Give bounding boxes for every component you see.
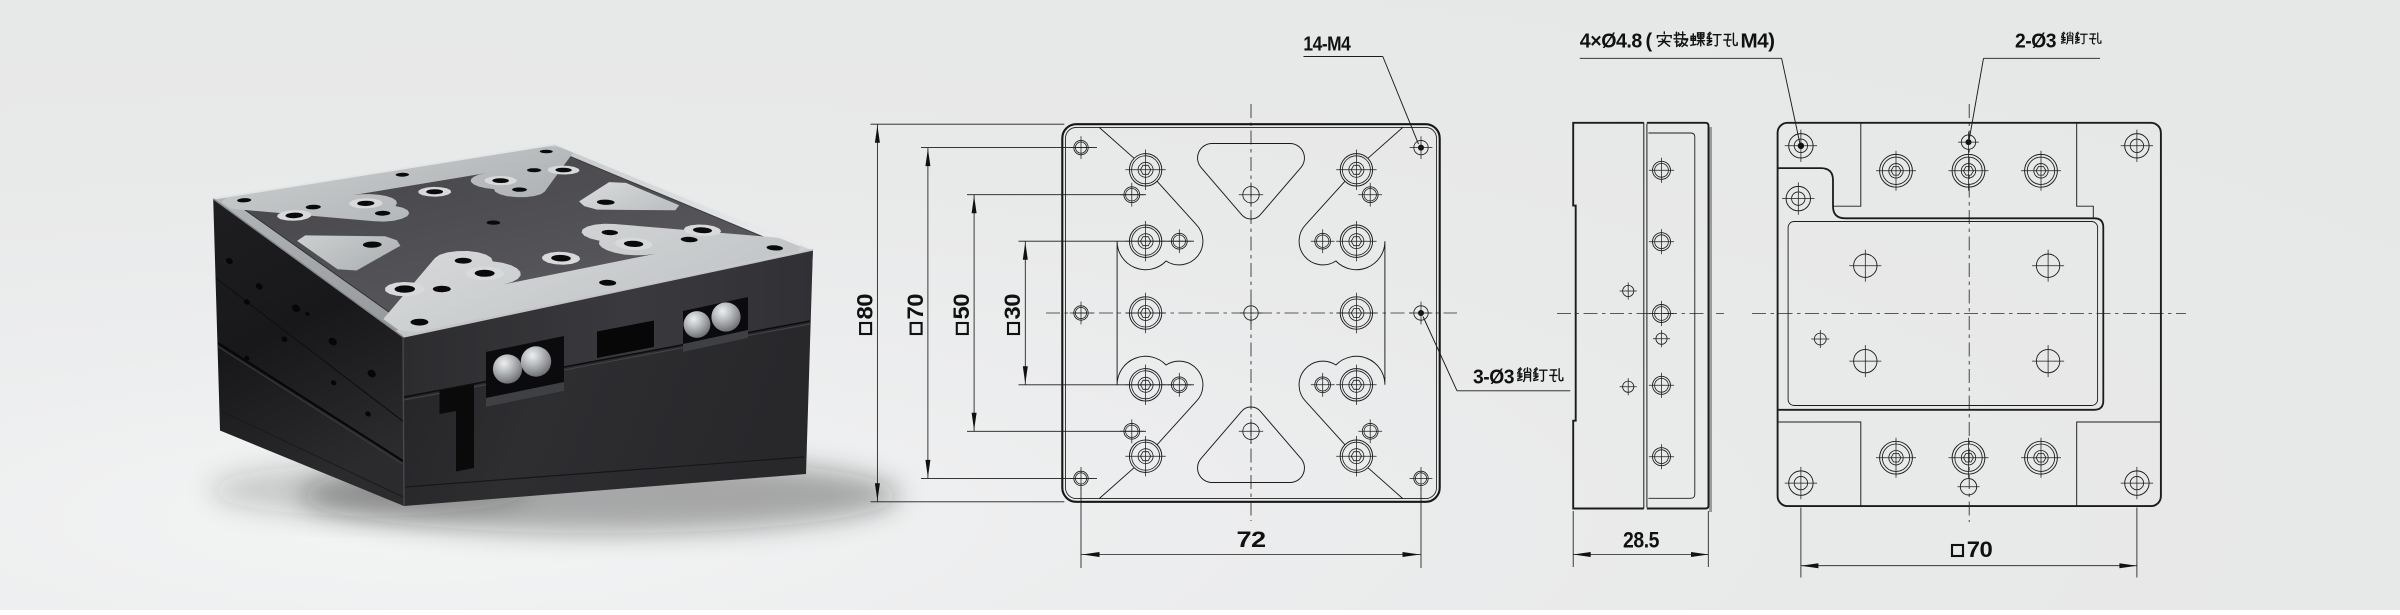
corner hole bottom-left: [1074, 471, 1088, 485]
triangular pocket bottom: [1198, 407, 1305, 482]
svg-text:70: 70: [1967, 537, 1993, 562]
gap line: [1646, 124, 1648, 508]
centre notch: [597, 321, 654, 359]
right cast shadow: [1709, 127, 1712, 512]
svg-text:14-M4: 14-M4: [1303, 34, 1351, 56]
dim 80: [871, 123, 1065, 125]
dim 50: [967, 194, 1146, 196]
counterbore hole (band): [1880, 154, 1913, 187]
M4 tapped hole (50 square): [1124, 423, 1140, 439]
counterbore screw hole M4: [1340, 154, 1372, 186]
dim 30: [1019, 240, 1195, 242]
counterbore screw hole M4: [1129, 225, 1161, 257]
body outline: [1778, 123, 2161, 506]
svg-text:(: (: [1646, 30, 1653, 52]
bearing balls left: [493, 354, 522, 383]
mounting hole 4.8: [1789, 471, 1813, 495]
band separator bottom-left: [1778, 422, 1861, 506]
centerline vertical: [1250, 104, 1252, 521]
centre hole: [1244, 306, 1258, 320]
dimension 28.5: [1572, 511, 1574, 567]
top edge highlights: [213, 144, 555, 199]
counterbore screw hole M4: [1340, 369, 1372, 401]
through hole in pocket: [2036, 254, 2059, 277]
corner hole top-right (M4, leader target): [1414, 140, 1428, 154]
through hole in pocket: [2036, 349, 2059, 372]
mounting hole 4.8: [2125, 471, 2149, 495]
metal rim left-back edge: [213, 144, 562, 202]
hole in top triangular pocket: [1243, 187, 1259, 203]
screw hole (side): [1653, 448, 1671, 466]
mounting hole 4.8: [1789, 134, 1813, 158]
cast shadow: [300, 457, 900, 533]
svg-text:72: 72: [1237, 527, 1266, 552]
milled pockets on top: [221, 147, 573, 222]
front corner edge highlight: [403, 337, 404, 506]
pin hole 2-O3 top: [1961, 135, 1975, 149]
svg-text:50: 50: [949, 294, 974, 320]
screw hole (side): [1653, 233, 1671, 251]
milled pocket outline left: [1099, 127, 1203, 498]
M4 tapped hole (50 square): [1124, 187, 1140, 203]
bearing balls right: [684, 311, 711, 338]
bearing slot right: [683, 297, 748, 352]
bottom view of stage (70 square pattern): [1752, 104, 2186, 578]
hole in bottom triangular pocket: [1243, 423, 1259, 439]
centerline: [1557, 313, 1724, 315]
dim 70: [921, 147, 1097, 149]
M4 tapped hole (30 square): [1171, 233, 1187, 249]
leader 3-O3 pin holes: [1423, 317, 1457, 391]
band separator top-left: [1833, 123, 1861, 206]
M4 tapped hole (30 square): [1315, 233, 1331, 249]
through hole in pocket: [1854, 349, 1877, 372]
base L-notch: [440, 385, 475, 472]
counterbore hole (band): [1880, 441, 1913, 474]
mid-side hole left: [1074, 306, 1088, 320]
right face upper band: [403, 250, 813, 397]
counterbore hole (band): [2025, 441, 2058, 474]
pocket chamfer inset: [1788, 222, 2098, 406]
counterbore hole (band): [2025, 154, 2058, 187]
front view: 80mm square stage top plate: [1046, 104, 1457, 521]
corner hole top-left: [1074, 140, 1088, 154]
small pin hole in pocket: [1814, 333, 1826, 345]
secondary hole near staircase: [1786, 186, 1810, 210]
screw hole (side): [1653, 305, 1671, 323]
M4 tapped hole (50 square): [1362, 187, 1378, 203]
pin hole: [1623, 285, 1634, 296]
pin hole: [1656, 333, 1667, 344]
corner hole bottom-right: [1414, 471, 1428, 485]
svg-text:M4): M4): [1741, 30, 1775, 52]
svg-text:30: 30: [1000, 294, 1025, 320]
band separator top-right: [2077, 123, 2094, 219]
dimension 70: [1800, 508, 1802, 578]
centerline vertical: [1968, 104, 1970, 522]
svg-text:2-Ø3: 2-Ø3: [2015, 30, 2056, 52]
pin hole bottom: [1960, 479, 1976, 495]
mid-side pin hole right (3-O3): [1414, 306, 1428, 320]
3D product photo of XY stage: [210, 144, 900, 533]
top face plate: [213, 144, 813, 337]
through hole in pocket: [1854, 254, 1877, 277]
rim separation lines: [231, 149, 551, 201]
metal rim back-right edge: [545, 144, 813, 252]
central pocket outline: [1778, 168, 2104, 410]
centerline horizontal: [1752, 313, 2186, 315]
svg-text:70: 70: [903, 294, 928, 320]
svg-text:3-Ø3: 3-Ø3: [1473, 366, 1514, 388]
svg-text:80: 80: [852, 294, 877, 320]
right face seam: [404, 321, 810, 397]
counterbore screw hole M4: [1129, 440, 1161, 472]
plate outline: [1062, 124, 1439, 502]
counterbore screw hole M4: [1340, 297, 1372, 329]
counterbore screw hole M4: [1129, 297, 1161, 329]
bearing slot left: [486, 336, 564, 407]
dimension stack left of front view: [852, 124, 1421, 568]
top face holes: [277, 210, 311, 221]
counterbore screw hole M4: [1340, 440, 1372, 472]
counterbore screw hole M4: [1129, 369, 1161, 401]
svg-text:4×Ø4.8: 4×Ø4.8: [1580, 30, 1642, 52]
left face seams: [213, 276, 404, 422]
band separator bottom-right: [2077, 422, 2161, 506]
M4 tapped hole (30 square): [1315, 377, 1331, 393]
plate chamfer inset: [1066, 127, 1437, 498]
centerline horizontal: [1046, 312, 1457, 314]
counterbore hole (band): [1952, 441, 1985, 474]
counterbore screw hole M4: [1340, 225, 1372, 257]
top plate outline: [1647, 123, 1709, 509]
dim 72: [1080, 487, 1082, 568]
M4 tapped hole (50 square): [1362, 423, 1378, 439]
milled pocket outline right: [1299, 127, 1403, 498]
left face holes: [225, 257, 234, 266]
metal rim front-left edge: [213, 197, 419, 337]
side view of stage, 28.5 wide: [1557, 123, 1724, 567]
metal rim front-right edge: [395, 245, 813, 337]
body right face: [403, 250, 813, 506]
counterbore hole (band): [1952, 154, 1985, 187]
pin hole: [1623, 381, 1634, 392]
svg-text:28.5: 28.5: [1623, 527, 1659, 552]
screw hole (side): [1653, 376, 1671, 394]
counterbore screw hole M4: [1129, 154, 1161, 186]
plate inner edge: [1648, 133, 1694, 498]
triangular pocket top: [1198, 144, 1305, 219]
body right edge: [1643, 123, 1645, 509]
screw hole (side): [1653, 161, 1671, 179]
stage body outline: [1573, 123, 1644, 509]
M4 tapped hole (30 square): [1171, 377, 1187, 393]
mounting hole 4.8: [2125, 134, 2149, 158]
